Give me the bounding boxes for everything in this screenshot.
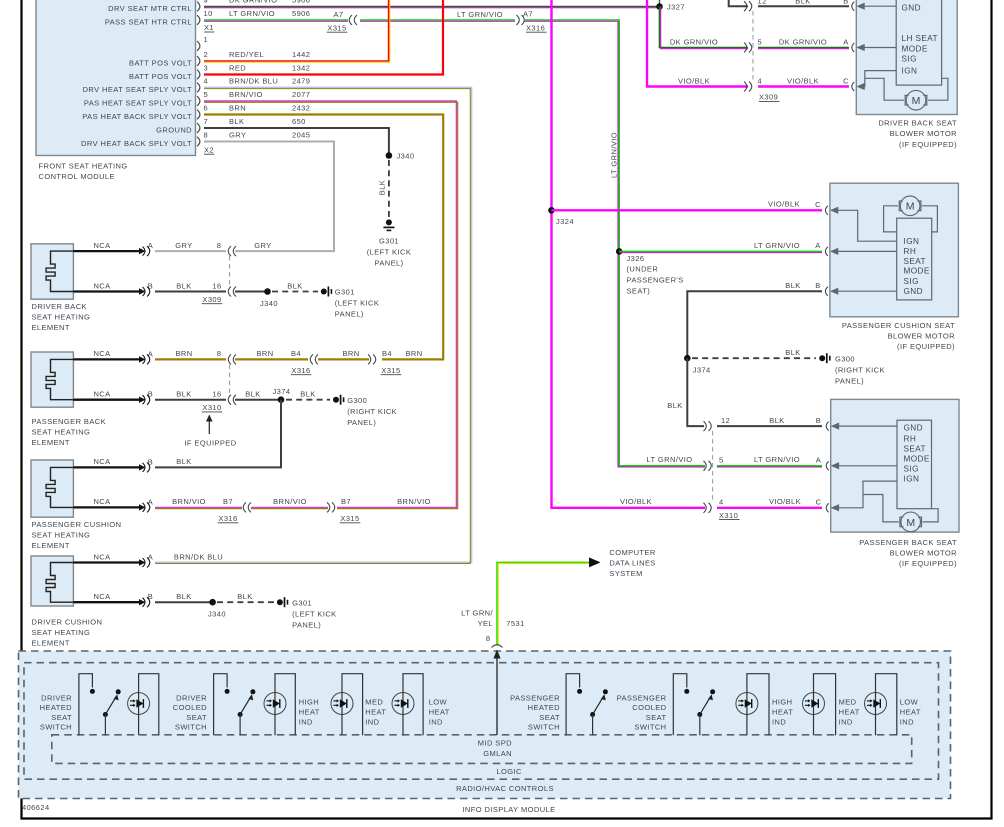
svg-text:PASSENGER: PASSENGER — [617, 694, 667, 703]
wire J327 down to DK GRN/VIO row — [660, 7, 749, 48]
svg-text:IND: IND — [772, 718, 786, 727]
svg-text:7531: 7531 — [506, 619, 524, 628]
svg-text:VIO/BLK: VIO/BLK — [769, 497, 801, 506]
indicator LED D1 (driver heated) — [128, 693, 150, 715]
svg-text:16: 16 — [212, 390, 221, 399]
heating element E4 DRIVER CUSHION SEAT HEATING ELEMENT — [31, 556, 73, 606]
svg-text:PAS HEAT BACK SPLY VOLT: PAS HEAT BACK SPLY VOLT — [82, 112, 192, 121]
svg-text:LT GRN/VIO: LT GRN/VIO — [646, 455, 692, 464]
svg-text:G300: G300 — [347, 396, 367, 405]
wire BLK row B driver back element to J340 — [155, 291, 226, 293]
svg-text:X309: X309 — [202, 295, 221, 304]
svg-text:GMLAN: GMLAN — [483, 749, 512, 758]
module pin 10 (LT GRN/VIO 5906) — [197, 15, 200, 25]
svg-text:RH: RH — [904, 434, 917, 443]
svg-text:NCA: NCA — [93, 349, 110, 358]
arrow to COMPUTER DATA LINES SYSTEM — [589, 557, 601, 567]
svg-text:BLK: BLK — [176, 457, 191, 466]
svg-text:NCA: NCA — [93, 281, 110, 290]
svg-text:B7: B7 — [341, 497, 351, 506]
svg-text:HEAT: HEAT — [365, 708, 386, 717]
wire BLK J374 down to X310 pin12 and blower B — [687, 358, 704, 426]
wire VIO/BLK vertical from top to J324 and X310 pin4 — [552, 0, 706, 508]
svg-text:4: 4 — [204, 77, 209, 86]
svg-text:4: 4 — [758, 76, 763, 85]
svg-text:DRIVER BACK SEAT: DRIVER BACK SEAT — [878, 119, 957, 128]
node J327 — [656, 3, 663, 10]
INFO DISPLAY MODULE outer dashed box — [19, 651, 951, 799]
svg-text:406624: 406624 — [22, 803, 50, 812]
svg-text:(RIGHT KICK: (RIGHT KICK — [347, 407, 397, 416]
svg-text:1: 1 — [204, 35, 209, 44]
switch S4 PASSENGER COOLED SEAT SWITCH symbol — [673, 674, 687, 736]
svg-text:5: 5 — [719, 456, 724, 465]
svg-text:PANEL): PANEL) — [335, 310, 364, 319]
svg-text:A: A — [843, 38, 848, 47]
M3 pin C internal wire to IGN — [826, 503, 829, 512]
svg-text:BLK: BLK — [176, 390, 191, 399]
wire VIO/BLK X309 pin4 to driver back blower C — [758, 85, 849, 87]
connector X309 pin 12 — [744, 1, 752, 11]
wire VIO/BLK X310 pin4 to passenger back blower C — [717, 507, 822, 509]
wire VIO/BLK vertical from top to X309 pin4 row — [647, 0, 748, 87]
svg-text:ELEMENT: ELEMENT — [32, 541, 70, 550]
module pin 9 (DK GRN/VIO 5906) — [197, 2, 200, 12]
svg-text:LT GRN/VIO: LT GRN/VIO — [754, 241, 800, 250]
svg-text:LT GRN/: LT GRN/ — [461, 609, 493, 618]
svg-text:BLK: BLK — [300, 390, 315, 399]
blower motor M2 PASSENGER CUSHION SEAT BLOWER MOTOR box — [830, 183, 959, 317]
svg-text:2077: 2077 — [292, 90, 310, 99]
svg-text:J340: J340 — [397, 152, 415, 161]
svg-text:HIGH: HIGH — [299, 698, 319, 707]
svg-text:GND: GND — [904, 287, 923, 296]
svg-text:(UNDER: (UNDER — [627, 264, 659, 273]
svg-text:PASSENGER BACK SEAT: PASSENGER BACK SEAT — [859, 538, 957, 547]
svg-text:B7: B7 — [223, 497, 233, 506]
svg-text:IND: IND — [365, 718, 379, 727]
svg-text:NCA: NCA — [93, 390, 110, 399]
svg-text:8: 8 — [217, 349, 222, 358]
svg-text:J326: J326 — [627, 254, 645, 263]
svg-text:BRN: BRN — [229, 104, 246, 113]
svg-text:SEAT: SEAT — [186, 713, 207, 722]
svg-text:LOW: LOW — [900, 698, 919, 707]
connector X310 pin 12 — [704, 421, 712, 431]
indicator LED D4 MED HEAT IND (driver) — [392, 693, 414, 715]
wire pin7 BLK 650 to J340 — [204, 128, 389, 156]
svg-text:5906: 5906 — [292, 0, 310, 5]
svg-text:GRY: GRY — [229, 131, 246, 140]
svg-text:NCA: NCA — [93, 592, 110, 601]
svg-text:A: A — [816, 455, 821, 464]
svg-text:650: 650 — [292, 117, 306, 126]
svg-text:DRIVER: DRIVER — [41, 694, 72, 703]
svg-text:ELEMENT: ELEMENT — [32, 323, 70, 332]
connector X316 inline row A passenger back (B4) — [310, 354, 318, 364]
svg-text:MODE: MODE — [904, 267, 930, 276]
wire BLK from top to X309 pin12 row (driver back blower B) — [729, 0, 748, 6]
svg-text:LOGIC: LOGIC — [496, 767, 522, 776]
svg-text:BLK: BLK — [245, 390, 260, 399]
svg-text:PASS SEAT HTR CTRL: PASS SEAT HTR CTRL — [105, 17, 192, 26]
indicator LED D3 HIGH HEAT IND (driver) — [331, 693, 353, 715]
svg-text:1442: 1442 — [292, 50, 310, 59]
wire BRN between X316 and conn8 — [235, 358, 308, 360]
svg-text:B: B — [815, 281, 820, 290]
svg-text:SEAT): SEAT) — [627, 286, 651, 295]
wire BRN between X315 and X316 row A passenger back — [318, 358, 369, 360]
E4 pin A NCA wire — [73, 561, 139, 563]
svg-text:A: A — [815, 241, 820, 250]
svg-text:G301: G301 — [379, 236, 399, 245]
svg-text:IGN: IGN — [902, 67, 918, 76]
svg-text:SWITCH: SWITCH — [175, 723, 207, 732]
wire GRY conn8 to element A — [155, 250, 226, 252]
svg-text:PANEL): PANEL) — [347, 418, 376, 427]
module pin 6 (BRN 2432) — [197, 110, 200, 120]
svg-text:VIO/BLK: VIO/BLK — [620, 497, 652, 506]
wire J324 to passenger cushion blower C — [552, 209, 823, 211]
svg-text:LT GRN/VIO: LT GRN/VIO — [610, 132, 619, 178]
node J324 — [548, 207, 555, 214]
svg-text:INFO DISPLAY MODULE: INFO DISPLAY MODULE — [462, 805, 555, 814]
svg-text:HEAT: HEAT — [429, 708, 450, 717]
svg-text:B4: B4 — [382, 349, 392, 358]
svg-text:MID SPD: MID SPD — [478, 738, 512, 747]
wire BLK J374 down to passenger cushion row B — [155, 400, 281, 468]
svg-text:IGN: IGN — [904, 237, 920, 246]
module U1 FRONT SEAT HEATING CONTROL MODULE — [36, 0, 196, 156]
connector at info display module pin 8 — [492, 645, 503, 648]
svg-text:MODE: MODE — [902, 44, 928, 53]
E2 pin B NCA wire — [73, 399, 139, 401]
svg-text:DK GRN/VIO: DK GRN/VIO — [779, 38, 827, 47]
indicator LED D6 MED HEAT IND (passenger) — [803, 693, 825, 715]
svg-text:NCA: NCA — [93, 497, 110, 506]
svg-text:BRN: BRN — [256, 349, 273, 358]
node J340 (top) — [386, 152, 393, 159]
svg-text:J324: J324 — [556, 217, 574, 226]
svg-text:SIG: SIG — [904, 277, 919, 286]
wire BLK from passenger cushion blower B — [687, 291, 822, 313]
svg-text:BATT POS VOLT: BATT POS VOLT — [129, 58, 192, 67]
svg-text:B: B — [843, 0, 848, 5]
svg-text:NCA: NCA — [93, 457, 110, 466]
svg-text:G300: G300 — [835, 355, 855, 364]
svg-text:G301: G301 — [335, 288, 355, 297]
ground G301 (LEFT KICK PANEL) driver back row B — [321, 289, 327, 295]
svg-text:J374: J374 — [693, 365, 711, 374]
module pin 1 ( ) — [197, 41, 200, 51]
connector inline 16 X310 row B passenger back — [228, 395, 236, 405]
svg-text:SEAT: SEAT — [51, 713, 72, 722]
svg-text:(IF EQUIPPED): (IF EQUIPPED) — [899, 140, 957, 149]
svg-text:BRN/VIO: BRN/VIO — [172, 497, 206, 506]
svg-text:ELEMENT: ELEMENT — [32, 438, 70, 447]
svg-text:SWITCH: SWITCH — [40, 723, 72, 732]
svg-text:X1: X1 — [204, 23, 214, 32]
svg-text:3: 3 — [204, 64, 209, 73]
svg-text:HEATED: HEATED — [528, 703, 561, 712]
svg-text:SEAT HEATING: SEAT HEATING — [32, 427, 91, 436]
svg-text:DRIVER CUSHION: DRIVER CUSHION — [32, 618, 103, 627]
wire DK GRN/VIO X309 pin5 to blower A — [758, 47, 849, 49]
svg-text:GND: GND — [904, 423, 923, 432]
svg-text:DRIVER: DRIVER — [176, 694, 207, 703]
wire pin3 RED 1342 up to top — [204, 0, 443, 75]
svg-text:16: 16 — [212, 281, 221, 290]
svg-text:C: C — [815, 200, 821, 209]
svg-text:X315: X315 — [381, 366, 400, 375]
svg-text:GRY: GRY — [175, 241, 192, 250]
svg-text:HIGH: HIGH — [772, 698, 792, 707]
svg-text:BLK: BLK — [795, 0, 810, 5]
svg-text:SEAT HEATING: SEAT HEATING — [32, 628, 91, 637]
svg-text:FRONT SEAT HEATING: FRONT SEAT HEATING — [39, 162, 128, 171]
LOGIC dashed box — [52, 735, 912, 764]
svg-text:BLOWER MOTOR: BLOWER MOTOR — [890, 129, 958, 138]
connector X316 inline (A7) — [517, 15, 525, 25]
svg-text:SIG: SIG — [904, 464, 919, 473]
svg-text:GRY: GRY — [254, 241, 271, 250]
module pin 2 (RED/YEL 1442) — [197, 56, 200, 66]
wire LT GRN/VIO X310 pin5 to passenger back blower A — [717, 465, 822, 467]
svg-text:M: M — [906, 201, 915, 213]
indicator LED D2 (driver cooled) — [264, 693, 286, 715]
wire BRN/VIO X316 to element — [155, 506, 242, 508]
svg-text:X315: X315 — [340, 514, 359, 523]
svg-text:X315: X315 — [327, 23, 346, 32]
svg-text:IND: IND — [299, 718, 313, 727]
heating element E2 PASSENGER BACK SEAT HEATING ELEMENT — [31, 352, 73, 407]
svg-text:BRN: BRN — [342, 349, 359, 358]
svg-text:BRN: BRN — [405, 349, 422, 358]
svg-text:LT GRN/VIO: LT GRN/VIO — [229, 9, 275, 18]
svg-text:RED: RED — [229, 64, 246, 73]
svg-text:BLK: BLK — [667, 401, 682, 410]
svg-text:6: 6 — [204, 104, 209, 113]
svg-text:12: 12 — [721, 416, 730, 425]
heating element E3 PASSENGER CUSHION SEAT HEATING ELEMENT — [31, 460, 73, 517]
svg-text:A: A — [148, 553, 153, 562]
node J340 (driver back row B) — [264, 288, 271, 295]
wire BRN conn8 to element — [155, 358, 226, 360]
svg-text:BLK: BLK — [229, 117, 244, 126]
svg-text:HEAT: HEAT — [299, 708, 320, 717]
svg-text:DK GRN/VIO: DK GRN/VIO — [229, 0, 277, 5]
svg-text:PANEL): PANEL) — [374, 258, 403, 267]
wire pin5 BRN/VIO 2077 to passenger cushion element A — [204, 101, 456, 507]
connector column X310 dashed link (left) — [229, 365, 231, 395]
connector inline 8 row A driver back — [228, 246, 236, 256]
svg-text:VIO/BLK: VIO/BLK — [678, 77, 710, 86]
wire BLK dashed J374 to G300 right — [692, 357, 816, 359]
svg-text:PASSENGER'S: PASSENGER'S — [627, 275, 684, 284]
E1 pin B NCA wire — [73, 290, 139, 292]
svg-text:X310: X310 — [719, 511, 738, 520]
svg-text:(IF EQUIPPED): (IF EQUIPPED) — [897, 342, 955, 351]
wire pin9 DK GRN/VIO 5906 to J327 — [204, 6, 660, 8]
connector X310 pin 4 — [704, 503, 712, 513]
M2 pin C internal wire to IGN — [825, 206, 828, 215]
svg-text:IND: IND — [839, 718, 853, 727]
svg-text:COOLED: COOLED — [632, 703, 666, 712]
svg-text:BLK: BLK — [378, 180, 387, 195]
M3 pin B internal wire — [826, 422, 829, 431]
svg-text:RADIO/HVAC CONTROLS: RADIO/HVAC CONTROLS — [456, 784, 554, 793]
svg-text:NCA: NCA — [93, 241, 110, 250]
svg-text:(IF EQUIPPED): (IF EQUIPPED) — [899, 559, 957, 568]
node J374 (left) — [278, 396, 285, 403]
svg-text:5: 5 — [758, 37, 763, 46]
ground G300 (RIGHT KICK PANEL) right — [819, 355, 825, 361]
svg-text:BATT POS VOLT: BATT POS VOLT — [129, 72, 192, 81]
wire pin4 BRN/DK BLU 2479 to driver cushion element A — [155, 87, 472, 562]
svg-text:12: 12 — [758, 0, 767, 5]
svg-text:PAS HEAT SEAT SPLY VOLT: PAS HEAT SEAT SPLY VOLT — [84, 98, 192, 107]
svg-text:BLOWER MOTOR: BLOWER MOTOR — [890, 549, 958, 558]
M3 motor symbol — [901, 512, 921, 532]
svg-text:DRV SEAT MTR CTRL: DRV SEAT MTR CTRL — [108, 4, 192, 13]
wire BLK dashed to G300 (passenger back row B) — [286, 399, 330, 401]
svg-text:MODE: MODE — [904, 454, 930, 463]
connector X315 inline (A7) — [349, 15, 357, 25]
svg-text:2045: 2045 — [292, 131, 310, 140]
svg-text:SEAT: SEAT — [539, 713, 560, 722]
switch S1 DRIVER HEATED SEAT SWITCH symbol — [79, 674, 93, 736]
module pin 3 (RED 1342) — [197, 70, 200, 80]
svg-text:M: M — [906, 517, 915, 529]
wire LT GRN/VIO between X315 and X316 — [360, 19, 515, 21]
svg-text:2: 2 — [204, 50, 209, 59]
svg-text:1342: 1342 — [292, 64, 310, 73]
svg-text:HEAT: HEAT — [900, 708, 921, 717]
svg-text:X310: X310 — [202, 403, 221, 412]
svg-text:LT GRN/VIO: LT GRN/VIO — [754, 455, 800, 464]
indicator LED D5 HIGH HEAT IND (passenger) — [736, 693, 758, 715]
connector X309 pin 5 — [744, 43, 752, 53]
wire LT GRN/VIO down to J326 and X310 pin5 — [524, 20, 705, 466]
svg-text:A7: A7 — [333, 10, 343, 19]
svg-text:VIO/BLK: VIO/BLK — [768, 200, 800, 209]
svg-text:DRV HEAT BACK SPLY VOLT: DRV HEAT BACK SPLY VOLT — [81, 139, 192, 148]
svg-text:IGN: IGN — [904, 474, 920, 483]
module pin 5 (BRN/VIO 2077) — [197, 96, 200, 106]
svg-text:BRN/VIO: BRN/VIO — [273, 497, 307, 506]
svg-text:HEATED: HEATED — [40, 703, 73, 712]
svg-text:RED/YEL: RED/YEL — [229, 50, 264, 59]
M1 pin A internal wire — [852, 43, 855, 52]
module pin 4 (BRN/DK BLU 2479) — [197, 83, 200, 93]
E3 pin A NCA wire — [73, 506, 139, 508]
svg-text:J340: J340 — [208, 609, 226, 618]
connector column X310 (right) dashed link — [712, 431, 714, 503]
node J374 (right) on BLK wire — [686, 313, 688, 358]
blower motor M3 PASSENGER BACK SEAT BLOWER MOTOR box — [831, 399, 959, 532]
svg-text:YEL: YEL — [478, 619, 493, 628]
svg-text:SEAT: SEAT — [646, 713, 667, 722]
svg-text:PASSENGER CUSHION SEAT: PASSENGER CUSHION SEAT — [842, 321, 955, 330]
svg-text:IND: IND — [900, 718, 914, 727]
svg-text:SEAT HEATING: SEAT HEATING — [32, 312, 91, 321]
svg-text:BLK: BLK — [769, 416, 784, 425]
M2 pin A internal wire — [825, 247, 828, 256]
svg-text:BRN/VIO: BRN/VIO — [229, 90, 263, 99]
wire BLK row B driver cushion element to J340 — [155, 601, 213, 603]
M3 pin A internal wire — [826, 461, 829, 470]
M1 pin C internal wire to IGN — [852, 82, 855, 91]
svg-text:(RIGHT KICK: (RIGHT KICK — [835, 366, 885, 375]
svg-text:VIO/BLK: VIO/BLK — [787, 77, 819, 86]
svg-text:SIG: SIG — [902, 54, 917, 63]
svg-text:9: 9 — [204, 0, 209, 5]
svg-text:B: B — [816, 416, 821, 425]
M2 motor loop wires — [884, 206, 899, 232]
wire BLK row B passenger back element to J374 — [155, 399, 226, 401]
svg-text:2479: 2479 — [292, 77, 310, 86]
svg-text:SYSTEM: SYSTEM — [609, 569, 642, 578]
svg-text:HEAT: HEAT — [772, 708, 793, 717]
M2 pin B internal wire — [825, 287, 828, 296]
svg-text:(LEFT KICK: (LEFT KICK — [292, 609, 337, 618]
svg-text:X309: X309 — [759, 93, 778, 102]
svg-text:J340: J340 — [260, 299, 278, 308]
data line into module with up arrow — [496, 656, 498, 735]
switch S3 PASSENGER HEATED SEAT SWITCH symbol — [566, 674, 580, 736]
wire BRN/VIO between X315 and X316 (row A passenger cushion) — [251, 506, 328, 508]
svg-text:SWITCH: SWITCH — [634, 723, 666, 732]
svg-text:10: 10 — [204, 9, 213, 18]
svg-text:BRN/DK BLU: BRN/DK BLU — [229, 77, 278, 86]
svg-text:DRV HEAT SEAT SPLY VOLT: DRV HEAT SEAT SPLY VOLT — [83, 85, 192, 94]
svg-text:PASSENGER BACK: PASSENGER BACK — [32, 417, 107, 426]
blower motor M1 DRIVER BACK SEAT BLOWER MOTOR box — [856, 0, 957, 115]
svg-text:BLK: BLK — [176, 281, 191, 290]
svg-text:IF EQUIPPED: IF EQUIPPED — [184, 438, 236, 447]
node J326 (UNDER PASSENGERS SEAT) — [616, 248, 623, 255]
svg-text:DRIVER BACK: DRIVER BACK — [32, 302, 87, 311]
svg-text:M: M — [912, 95, 921, 107]
wire pin2 RED/YEL 1442 up to top — [204, 0, 389, 61]
svg-text:HEAT: HEAT — [839, 708, 860, 717]
wire J327 stub up (cut at top) — [659, 0, 661, 7]
svg-text:ELEMENT: ELEMENT — [32, 639, 70, 648]
svg-text:C: C — [816, 497, 822, 506]
svg-text:(LEFT KICK: (LEFT KICK — [335, 299, 380, 308]
svg-text:5906: 5906 — [292, 9, 310, 18]
svg-text:J374: J374 — [273, 387, 291, 396]
svg-text:LH SEAT: LH SEAT — [902, 34, 938, 43]
connector column X309 (right) dashed link — [752, 11, 754, 82]
svg-text:MED: MED — [365, 698, 383, 707]
svg-text:BLK: BLK — [785, 281, 800, 290]
svg-text:G301: G301 — [292, 598, 312, 607]
indicator LED D7 LOW HEAT IND (passenger) — [865, 693, 887, 715]
node J340 (driver cushion row B) — [209, 599, 216, 606]
svg-text:PASSENGER CUSHION: PASSENGER CUSHION — [32, 520, 122, 529]
M3 motor loop wires — [863, 495, 899, 522]
svg-text:2432: 2432 — [292, 104, 310, 113]
wire pin8 GRY 2045 to driver back element A — [204, 142, 334, 252]
connector inline 16 X309 row B driver back — [228, 287, 236, 297]
svg-text:X2: X2 — [204, 145, 214, 154]
svg-text:MED: MED — [839, 698, 857, 707]
svg-text:DATA LINES: DATA LINES — [609, 558, 655, 567]
connector inline 8 row A passenger back — [228, 354, 236, 364]
svg-text:GND: GND — [902, 3, 921, 12]
svg-text:J327: J327 — [667, 3, 685, 12]
